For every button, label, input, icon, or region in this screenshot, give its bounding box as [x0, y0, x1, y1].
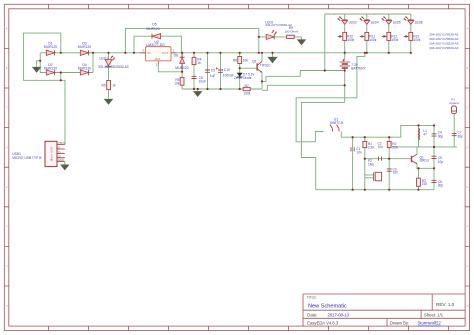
svg-text:MUR120: MUR120: [44, 67, 57, 71]
capacitor C9: [205, 69, 215, 79]
svg-text:D-: D-: [58, 146, 61, 150]
svg-text:GND: GND: [58, 158, 64, 162]
wire battery minus staircase to oscillator ground: [301, 102, 344, 189]
capacitor C5: [432, 156, 444, 164]
resistor R5: [174, 78, 184, 86]
svg-text:1Mz: 1Mz: [368, 163, 374, 167]
wire main rail: [90, 52, 411, 54]
LED part number list: [429, 33, 458, 51]
svg-text:220: 220: [422, 182, 428, 186]
resistor R6: [102, 81, 117, 90]
diode D4: [78, 63, 91, 75]
wire Q2 base: [240, 67, 257, 69]
svg-text:MUR120: MUR120: [78, 67, 91, 71]
wire Q1 base: [365, 158, 412, 160]
wire C1 chain: [352, 137, 354, 190]
svg-text:LED5: LED5: [393, 21, 401, 25]
svg-text:EasyEDA V4.8.3: EasyEDA V4.8.3: [307, 321, 339, 326]
wire R1/P2 chain: [364, 137, 366, 190]
LED LED5: [382, 16, 401, 24]
svg-text:D+: D+: [58, 150, 62, 154]
svg-text:Date:: Date:: [307, 313, 317, 318]
svg-text:C9: C9: [211, 69, 215, 73]
svg-text:2.2K: 2.2K: [368, 145, 375, 149]
diode D5: [146, 22, 160, 38]
svg-text:1k: 1k: [112, 83, 116, 87]
resistor R7: [243, 84, 251, 96]
ground at regulator bus: [194, 91, 202, 96]
svg-text:LED3: LED3: [349, 21, 357, 25]
svg-text:C: C: [467, 107, 469, 110]
title block: [303, 294, 465, 326]
resistor R10: [338, 32, 355, 42]
svg-text:VBUS: VBUS: [58, 141, 65, 145]
svg-text:H: H: [6, 305, 8, 308]
svg-text:LM317T-DG: LM317T-DG: [146, 43, 165, 47]
wire D3/D4 cathode vertical: [92, 53, 94, 73]
capacitor C2: [378, 142, 384, 161]
capacitor C4: [432, 131, 444, 139]
wire battery chain vertical: [344, 53, 346, 103]
wire R3 stub: [418, 168, 420, 189]
wire ground stub at rail: [272, 53, 274, 57]
LED LED1: [98, 56, 129, 69]
diode D1: [44, 41, 57, 55]
svg-text:ID: ID: [58, 154, 61, 158]
svg-text:204-10UYC/S530-A3: 204-10UYC/S530-A3: [429, 37, 458, 41]
wire Q1 collector: [416, 147, 418, 154]
wire D6/R5 chain: [181, 53, 183, 89]
svg-text:Micro USB: Micro USB: [50, 147, 54, 162]
antenna P1: [449, 98, 459, 114]
zener diode D7: [234, 73, 255, 80]
svg-text:1uF: 1uF: [210, 74, 216, 78]
op-amp U2 LM317 regulator: [140, 40, 176, 67]
wire LED chain 4: [410, 14, 412, 53]
svg-text:Sheet: 1/1: Sheet: 1/1: [424, 313, 444, 318]
svg-text:TITLE:: TITLE:: [307, 296, 317, 300]
svg-text:Q2: Q2: [252, 59, 256, 63]
svg-text:OUT: OUT: [162, 51, 169, 55]
svg-text:204-10UYC/S530-A3: 204-10UYC/S530-A3: [429, 33, 458, 37]
diode D6: [174, 53, 189, 72]
svg-text:R8: R8: [233, 59, 237, 63]
svg-text:New Schematic: New Schematic: [308, 304, 347, 310]
svg-text:30p: 30p: [438, 134, 444, 138]
ground at rectifier: [33, 61, 41, 72]
svg-text:Drawn By:: Drawn By:: [390, 321, 409, 326]
resistor R8: [233, 57, 248, 64]
svg-text:ADJ: ADJ: [154, 57, 160, 61]
wire C4/C5/C6 divider chain: [433, 125, 435, 189]
svg-text:22K: 22K: [392, 145, 399, 149]
svg-text:30p: 30p: [458, 134, 464, 138]
svg-text:100: 100: [393, 171, 399, 175]
svg-text:10uF: 10uF: [199, 79, 206, 83]
svg-text:30p: 30p: [438, 184, 444, 188]
wire oscillator bottom rail: [316, 189, 434, 191]
USB connector USB1: [12, 141, 65, 167]
LED LED4: [360, 16, 379, 24]
wire D2/D4 junction drop to loop: [60, 73, 62, 81]
diode D3: [78, 41, 91, 55]
svg-text:100 Ohms: 100 Ohms: [284, 29, 298, 33]
svg-text:MICRO USB TYP B: MICRO USB TYP B: [12, 156, 42, 160]
ground at rail tap: [268, 57, 276, 62]
capacitor C6: [432, 180, 444, 188]
resistor R13: [404, 32, 421, 42]
svg-text:SWITCH: SWITCH: [330, 121, 344, 125]
svg-text:10n: 10n: [356, 151, 362, 155]
wire R2/C3 chain: [388, 137, 390, 190]
resistor R1: [363, 142, 375, 150]
switch U1: [330, 117, 344, 131]
battery BT1: [340, 59, 367, 71]
svg-text:LED4: LED4: [371, 21, 379, 25]
capacitor C1: [351, 147, 362, 154]
svg-text:100k: 100k: [243, 92, 250, 96]
svg-text:10p: 10p: [438, 160, 444, 164]
svg-text:MUR120: MUR120: [175, 66, 188, 70]
capacitor C3: [387, 167, 398, 174]
resistor R3: [417, 178, 428, 186]
svg-text:Antena: Antena: [449, 101, 459, 105]
wire LED1 chain: [108, 53, 110, 98]
LED LED3: [338, 16, 357, 24]
LED LED2: [265, 20, 292, 39]
svg-text:LED6: LED6: [415, 21, 423, 25]
svg-text:2017-08-13: 2017-08-13: [328, 313, 350, 318]
ground below R6: [105, 98, 113, 104]
wire switch to oscillator VCC rail: [341, 125, 434, 137]
capacitor C10: [216, 67, 234, 77]
svg-text:1000uF: 1000uF: [223, 73, 234, 77]
wire L1 branch: [418, 125, 420, 146]
transistor Q1: [412, 154, 429, 164]
svg-text:47: 47: [423, 133, 427, 137]
capacitor C7: [452, 131, 463, 139]
wire LED chain 3: [388, 14, 390, 53]
svg-text:MUR120: MUR120: [78, 45, 91, 49]
svg-text:100k: 100k: [347, 38, 354, 42]
ground at USB shield: [61, 161, 69, 169]
wire left vertical (D1/D2 anodes): [39, 53, 41, 73]
wire P2 stubs: [365, 175, 373, 178]
svg-text:IN: IN: [148, 51, 151, 55]
wire C9 chain: [207, 53, 209, 89]
diode D2: [44, 63, 57, 75]
wire LED chain 1: [344, 14, 346, 53]
LED LED6: [404, 16, 423, 24]
svg-text:MUR120: MUR120: [44, 45, 57, 49]
transistor Q2 TIP31C: [252, 59, 271, 72]
piezo P2: [368, 159, 382, 181]
wire collector rail: [392, 146, 457, 148]
wire R8/D7 chain: [239, 53, 241, 89]
wire ground bus below regulator: [182, 81, 262, 89]
wire Q2 collector/emitter vertical: [261, 53, 263, 82]
resistor R4: [192, 57, 202, 65]
wire top arc (IN node to LED2/charger): [125, 28, 258, 52]
inductor L1: [419, 128, 428, 140]
svg-text:D5: D5: [152, 22, 156, 26]
svg-text:100k: 100k: [413, 38, 420, 42]
svg-text:BATTERY: BATTERY: [351, 67, 366, 71]
svg-text:D: D: [6, 146, 8, 149]
wire ground stub at bus: [197, 89, 199, 91]
resistor R11: [360, 32, 377, 42]
svg-text:C10: C10: [224, 68, 230, 72]
wire emitter route to battery top: [262, 71, 345, 82]
svg-text:R6: R6: [102, 83, 106, 87]
wire rail tap to switch (staircase): [296, 53, 365, 142]
svg-text:100k: 100k: [391, 38, 398, 42]
svg-text:MUR120: MUR120: [146, 27, 159, 31]
svg-text:100k: 100k: [369, 38, 376, 42]
svg-text:D6: D6: [174, 54, 178, 58]
svg-text:H: H: [467, 305, 469, 308]
ground after R9: [298, 40, 306, 45]
wire D5 bypass arc: [134, 36, 181, 53]
wire U2 ADJ: [158, 63, 182, 72]
svg-text:G: G: [467, 265, 469, 268]
svg-text:C: C: [6, 107, 8, 110]
wire LED chain 2: [366, 14, 368, 53]
wire R4/C8 chain: [193, 53, 195, 89]
wire D1/D3 row: [40, 52, 93, 54]
svg-text:204-10UYC/S530-A3: 204-10UYC/S530-A3: [429, 46, 458, 50]
wire C10 chain: [220, 53, 222, 89]
svg-text:S9013: S9013: [420, 159, 429, 163]
wire battery minus U-return: [262, 85, 345, 90]
wire Q1 emitter rail: [417, 164, 434, 169]
svg-text:TIP31C: TIP31C: [260, 63, 272, 67]
capacitor C8: [192, 76, 206, 83]
svg-text:G: G: [6, 265, 8, 268]
resistor R2: [387, 142, 399, 150]
wire antenna/C7 drop: [453, 114, 455, 147]
svg-text:LED1: LED1: [100, 56, 109, 60]
svg-text:D: D: [467, 146, 469, 149]
resistor R9: [284, 26, 298, 38]
wire rectifier loop (D1/D3 junction up-around to USB VBUS): [23, 33, 65, 144]
svg-text:10k: 10k: [243, 59, 249, 63]
svg-text:1k: 1k: [197, 61, 201, 65]
svg-text:Sturmwolf22: Sturmwolf22: [418, 321, 442, 326]
svg-text:333-2SYGD/S530-A3: 333-2SYGD/S530-A3: [98, 65, 129, 69]
resistor R12: [382, 32, 399, 42]
svg-text:Zener Diode: Zener Diode: [234, 76, 252, 80]
wire LED bank top rail and left leg: [325, 14, 411, 71]
svg-text:REV: 1.0: REV: 1.0: [436, 302, 455, 307]
svg-text:10k: 10k: [174, 82, 180, 86]
svg-text:10n: 10n: [378, 145, 384, 149]
svg-text:204-10UYC/S530-A3: 204-10UYC/S530-A3: [429, 42, 458, 46]
wire D2/D4 row: [40, 72, 93, 74]
svg-text:R7: R7: [245, 84, 249, 88]
wire LED2 row: [259, 37, 302, 40]
